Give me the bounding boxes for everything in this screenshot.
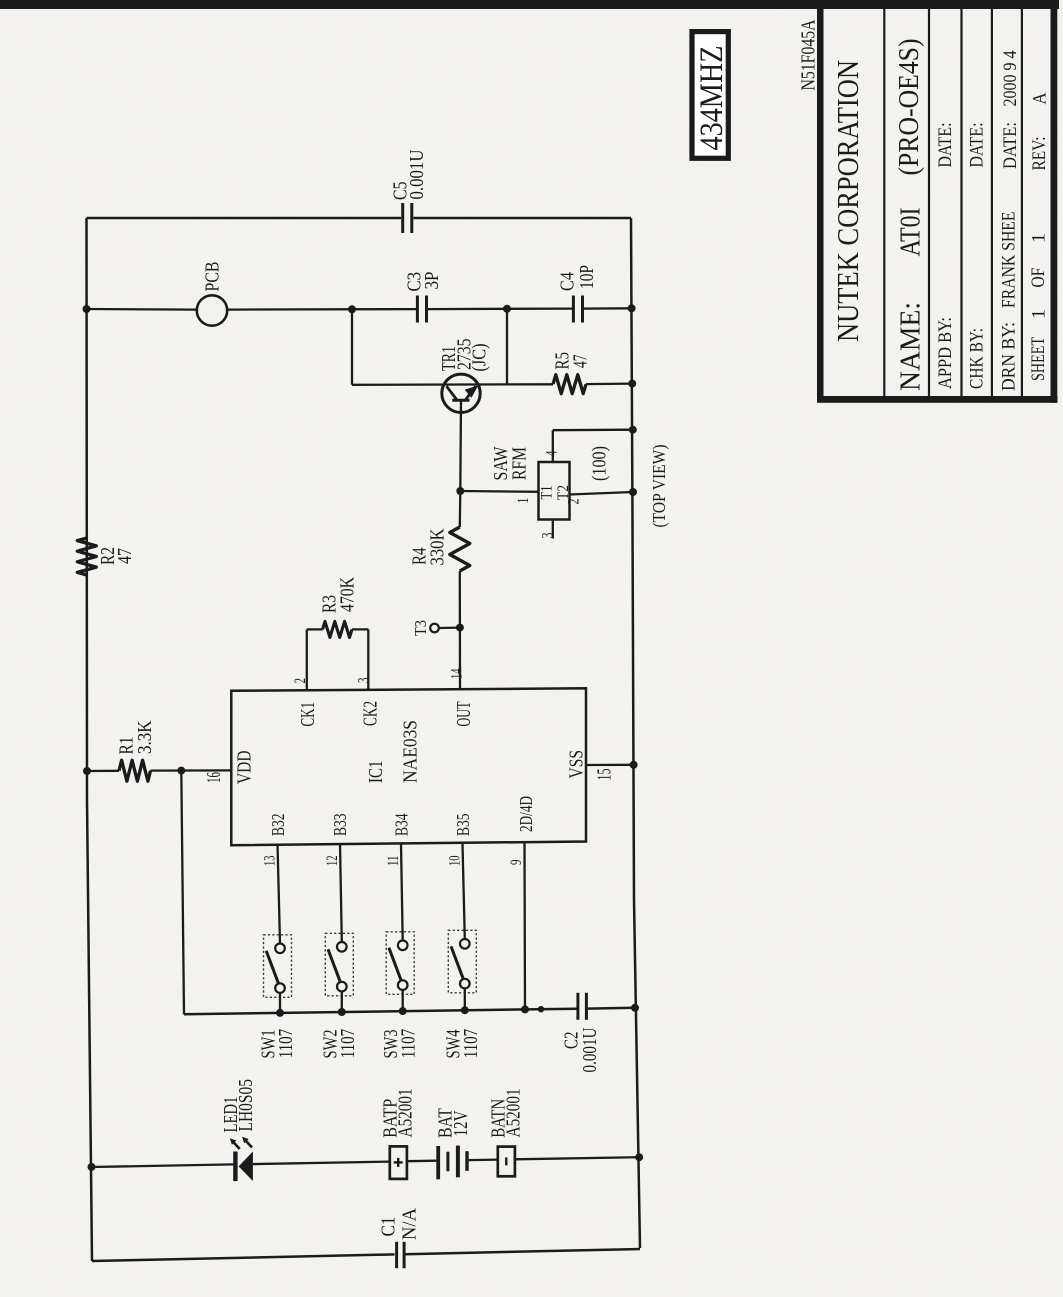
switch SW3: [386, 932, 414, 995]
svg-text:9: 9: [508, 859, 525, 865]
wire: SAW pin 2 to rail: [570, 492, 634, 495]
svg-text:0.001U: 0.001U: [580, 1028, 601, 1073]
switch SW2: [325, 933, 353, 996]
svg-text:330K: 330K: [428, 529, 449, 566]
svg-text:1: 1: [515, 498, 532, 504]
LED emission arrows: [233, 1142, 240, 1150]
svg-text:DATE:: DATE:: [968, 123, 988, 168]
svg-text:1107: 1107: [399, 1029, 420, 1059]
node: pin4 rail junction: [629, 426, 637, 434]
svg-text:NAME:: NAME:: [895, 302, 927, 391]
wire: to SAW pin 1: [460, 490, 538, 493]
wire: IC pin 11 to SW3: [401, 844, 403, 941]
svg-text:3: 3: [540, 532, 557, 538]
svg-text:2: 2: [566, 499, 583, 505]
switch SW1: [264, 935, 292, 998]
svg-text:REV:: REV:: [1030, 137, 1050, 171]
node: SW3 bus junction: [399, 1007, 407, 1015]
node: SW1 bus junction: [276, 1009, 284, 1017]
svg-text:APPD BY:: APPD BY:: [936, 317, 956, 389]
svg-text:AT0I: AT0I: [895, 208, 927, 257]
svg-text:B34: B34: [392, 813, 412, 836]
wire: TR1 base/collector line: [352, 383, 553, 386]
battery terminal BATP: [390, 1146, 407, 1179]
test point T3: [430, 624, 439, 633]
svg-text:(PRO-OE4S): (PRO-OE4S): [893, 39, 925, 176]
wire: drop to switch bus: [181, 771, 184, 1015]
svg-text:DATE:: DATE:: [936, 123, 956, 168]
svg-text:15: 15: [594, 769, 616, 781]
wire: SAW pin 4 to rail: [552, 430, 554, 462]
resistor R1: [87, 770, 119, 773]
svg-text:12: 12: [324, 856, 341, 867]
battery terminal BATN: [498, 1147, 515, 1177]
svg-text:DRN BY:: DRN BY:: [1000, 322, 1020, 391]
svg-text:OF: OF: [1029, 268, 1049, 288]
svg-text:A52001: A52001: [504, 1088, 525, 1137]
svg-text:A52001: A52001: [396, 1088, 417, 1137]
svg-text:13: 13: [262, 855, 279, 866]
svg-text:4: 4: [544, 450, 561, 456]
svg-text:LH0S05: LH0S05: [236, 1079, 257, 1132]
wire: drop to TR1 base: [351, 309, 353, 385]
wire: SAW pin 3 stub: [552, 520, 554, 539]
svg-text:B35: B35: [453, 813, 473, 836]
svg-text:N/A: N/A: [400, 1208, 421, 1240]
node: pin9 bus junction: [521, 1005, 529, 1013]
wire: drop to TR1 collector: [506, 309, 508, 385]
node: chain/rail junction: [635, 1153, 643, 1161]
svg-text:VDD: VDD: [235, 751, 256, 785]
wire: chain segment: [253, 1162, 390, 1165]
PCB pad (antenna): [197, 295, 227, 325]
svg-text:11: 11: [385, 856, 402, 867]
wire: chain segment: [469, 1158, 498, 1161]
LED LED1: [233, 1152, 237, 1182]
svg-text:NUTEK CORPORATION: NUTEK CORPORATION: [830, 60, 865, 342]
svg-text:10: 10: [447, 855, 464, 866]
title block outer border: [817, 6, 824, 403]
svg-text:DATE:: DATE:: [1001, 122, 1021, 169]
node: collector-drop junction: [503, 305, 511, 313]
wire: V+ rail (portrait left): [87, 218, 93, 1261]
wire: IC pin 10 to SW4: [463, 844, 465, 939]
svg-text:CK1: CK1: [298, 702, 319, 727]
svg-text:47: 47: [115, 548, 136, 564]
svg-text:1107: 1107: [461, 1029, 482, 1059]
svg-text:A: A: [1031, 92, 1051, 105]
svg-text:(JC): (JC): [470, 344, 491, 372]
node: SW2 bus junction: [338, 1008, 346, 1016]
svg-text:T3: T3: [411, 620, 430, 636]
capacitor C3: [416, 296, 419, 323]
svg-text:434MHZ: 434MHZ: [694, 46, 730, 151]
svg-text:2: 2: [292, 678, 309, 684]
svg-text:0.001U: 0.001U: [407, 150, 428, 200]
node: R5 to rail junction: [628, 380, 636, 388]
svg-text:CK2: CK2: [361, 701, 382, 726]
svg-text:14: 14: [449, 668, 466, 679]
svg-text:VSS: VSS: [567, 750, 588, 779]
battery BAT 12V: [436, 1146, 440, 1179]
svg-text:(100): (100): [590, 446, 611, 481]
svg-text:3: 3: [356, 677, 373, 683]
node: rail/R1 junction: [83, 767, 91, 775]
svg-text:(TOP VIEW): (TOP VIEW): [649, 444, 669, 527]
node: R1/switch-bus junction: [177, 767, 185, 775]
capacitor C2: [576, 993, 579, 1020]
node: C4 to rail junction: [628, 304, 636, 312]
wire: to IC pin 14: [459, 628, 461, 689]
node: SW4 bus junction: [461, 1006, 469, 1014]
svg-text:C4: C4: [558, 272, 579, 291]
capacitor C4: [572, 296, 575, 323]
wire: IC pin 12 to SW2: [340, 844, 342, 942]
node: T3/pin14 junction: [456, 624, 464, 632]
wire: switch common bus: [184, 1009, 577, 1015]
node: pin2 rail junction: [629, 488, 637, 496]
wire: chain segment: [407, 1160, 436, 1163]
svg-text:C1: C1: [379, 1217, 400, 1237]
wire: pin 2 stub: [306, 629, 308, 690]
top scan border bar: [0, 0, 1059, 9]
wire: IC pin 13 to SW1: [278, 844, 281, 944]
svg-text:3P: 3P: [422, 271, 443, 289]
wire: chain segment: [92, 1164, 234, 1167]
title block row lines: [883, 7, 885, 396]
wire: chain segment: [515, 1157, 639, 1159]
svg-text:1107: 1107: [276, 1029, 297, 1059]
transistor TR1: [442, 374, 480, 412]
capacitor C5: [401, 203, 404, 233]
svg-text:SHEET: SHEET: [1029, 337, 1049, 381]
svg-text:1: 1: [1030, 309, 1050, 319]
wire: VSS pin 15 to rail: [586, 764, 634, 767]
svg-text:T2: T2: [555, 485, 572, 500]
resistor R2: [77, 538, 96, 575]
resistor R3: [307, 628, 323, 630]
IC U1 NAE03S body: [231, 688, 586, 845]
node: pin15 rail junction: [630, 761, 638, 769]
svg-text:PCB: PCB: [203, 262, 224, 292]
node: rail to PCB net junction: [83, 305, 91, 313]
svg-text:1107: 1107: [338, 1029, 359, 1059]
svg-text:NAE03S: NAE03S: [401, 720, 422, 783]
resistor R4: [459, 491, 462, 527]
svg-text:FRANK SHEE: FRANK SHEE: [1000, 212, 1020, 309]
resistor R5: [553, 375, 586, 394]
svg-text:N51F045A: N51F045A: [799, 20, 820, 91]
wire: IC pin 9 to bus: [523, 843, 526, 1009]
svg-text:2000 9 4: 2000 9 4: [1001, 51, 1021, 107]
SAW resonator T1/T2 (RFM): [539, 462, 570, 520]
node: bus/rail junction: [631, 1004, 639, 1012]
svg-text:3.3K: 3.3K: [135, 721, 156, 755]
wire: pin 3 stub: [367, 629, 369, 690]
frequency label box 434MHZ: [692, 32, 728, 159]
svg-text:RFM: RFM: [510, 447, 531, 480]
node: rail/LED-chain junction: [88, 1163, 96, 1171]
switch SW4: [448, 930, 476, 993]
node: emitter/SAW junction: [456, 487, 464, 495]
svg-text:12V: 12V: [451, 1111, 472, 1137]
svg-text:1: 1: [1030, 233, 1050, 243]
wire: top rail with C5 gap: [87, 217, 402, 220]
svg-text:10P: 10P: [577, 265, 598, 289]
svg-text:T1: T1: [539, 486, 556, 500]
wire: right rail: [631, 218, 640, 1248]
wire: antenna/PCB net: [87, 308, 197, 311]
svg-text:47: 47: [571, 354, 592, 368]
node: base-drop junction: [348, 305, 356, 313]
capacitor C1: [395, 1242, 398, 1268]
svg-text:16: 16: [203, 772, 225, 783]
svg-text:OUT: OUT: [454, 701, 475, 726]
wire: TR1 emitter: [459, 400, 462, 491]
wire: bottom rail with C1 gap: [92, 1254, 395, 1261]
svg-text:2D/4D: 2D/4D: [516, 796, 536, 832]
svg-text:B32: B32: [268, 814, 288, 837]
svg-text:CHK BY:: CHK BY:: [968, 328, 988, 389]
svg-text:IC1: IC1: [366, 761, 387, 784]
svg-text:B33: B33: [330, 813, 350, 836]
svg-text:470K: 470K: [338, 577, 359, 612]
